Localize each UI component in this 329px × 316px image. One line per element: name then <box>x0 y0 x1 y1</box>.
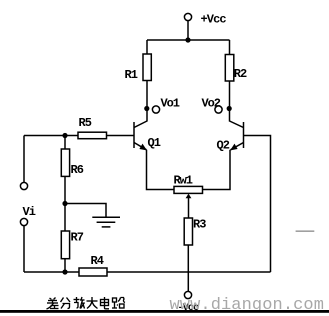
wire wiper to R3 <box>188 198 190 219</box>
svg-text:R3: R3 <box>193 218 206 232</box>
wire Q1 emitter down and to Rw1 <box>147 150 175 190</box>
电 <box>101 297 110 309</box>
resistor R1 <box>143 54 151 81</box>
resistor R5 <box>78 132 107 139</box>
Rw1 wiper arrow <box>186 194 192 199</box>
svg-text:+Vcc: +Vcc <box>201 13 227 27</box>
resistor R6 <box>61 149 69 176</box>
ground <box>92 217 120 227</box>
resistor R3 <box>184 218 192 245</box>
node R5/R6 junction <box>62 133 67 138</box>
大 <box>87 297 98 309</box>
wire left input branch <box>23 136 25 183</box>
wire R7 top <box>64 204 66 232</box>
wire R2 bottom to Q2 collector <box>229 81 231 122</box>
potentiometer Rw1 <box>174 186 203 193</box>
分 <box>61 298 71 309</box>
svg-text:R5: R5 <box>79 116 92 130</box>
svg-text:R7: R7 <box>71 231 84 245</box>
resistor R2 <box>225 55 234 82</box>
wire to ground <box>65 204 106 218</box>
+Vcc terminal <box>184 13 191 40</box>
svg-text:R2: R2 <box>234 67 247 81</box>
terminal upper Vi circle <box>20 182 27 189</box>
node Vo2 <box>215 106 232 113</box>
node Vo1 <box>144 106 159 113</box>
wire R5 left <box>24 135 78 137</box>
caption 差分放大电路 (hand-drawn glyphs) <box>47 297 126 309</box>
transistor Q2 <box>230 121 244 150</box>
node Vcc junction <box>185 37 190 42</box>
resistor R7 <box>61 231 69 259</box>
wire R6 top <box>64 136 66 150</box>
wire R1 top <box>146 40 148 54</box>
wire R3 to -Vcc <box>187 245 189 291</box>
wire Q2 emitter down and to Rw1 <box>203 150 231 190</box>
wire R7 bottom <box>64 259 66 272</box>
wire bottom rail left <box>24 271 79 273</box>
bottom rule <box>0 310 329 313</box>
svg-text:Vi: Vi <box>23 205 36 219</box>
watermark dash <box>296 230 315 232</box>
svg-text:R6: R6 <box>71 163 84 177</box>
svg-text:Vo1: Vo1 <box>161 97 180 111</box>
wire Q1 base <box>107 135 135 137</box>
svg-text:Vo2: Vo2 <box>202 97 221 111</box>
transistor Q1 <box>134 121 147 150</box>
wire R6 bottom <box>64 176 66 203</box>
terminal -Vcc <box>184 291 191 298</box>
resistor R4 <box>79 268 107 276</box>
放 <box>74 297 85 309</box>
svg-text:Rw1: Rw1 <box>174 174 193 188</box>
wire bottom rail right <box>107 271 271 273</box>
wire lower Vi to bottom rail <box>23 226 25 272</box>
wire top rail <box>147 39 230 41</box>
svg-text:Q1: Q1 <box>148 136 161 150</box>
wire R1 bottom to Q1 collector <box>146 81 148 122</box>
node R6/R7/ground junction <box>62 201 67 206</box>
路 <box>112 298 125 309</box>
node bottom-left junction <box>62 269 67 274</box>
svg-text:R1: R1 <box>125 68 138 82</box>
wire Q2 base to right rail <box>244 136 271 273</box>
svg-text:Q2: Q2 <box>217 139 230 153</box>
wire R2 top <box>229 40 231 55</box>
terminal lower Vi circle <box>20 218 27 225</box>
差 <box>47 298 59 310</box>
svg-text:R4: R4 <box>91 254 104 268</box>
